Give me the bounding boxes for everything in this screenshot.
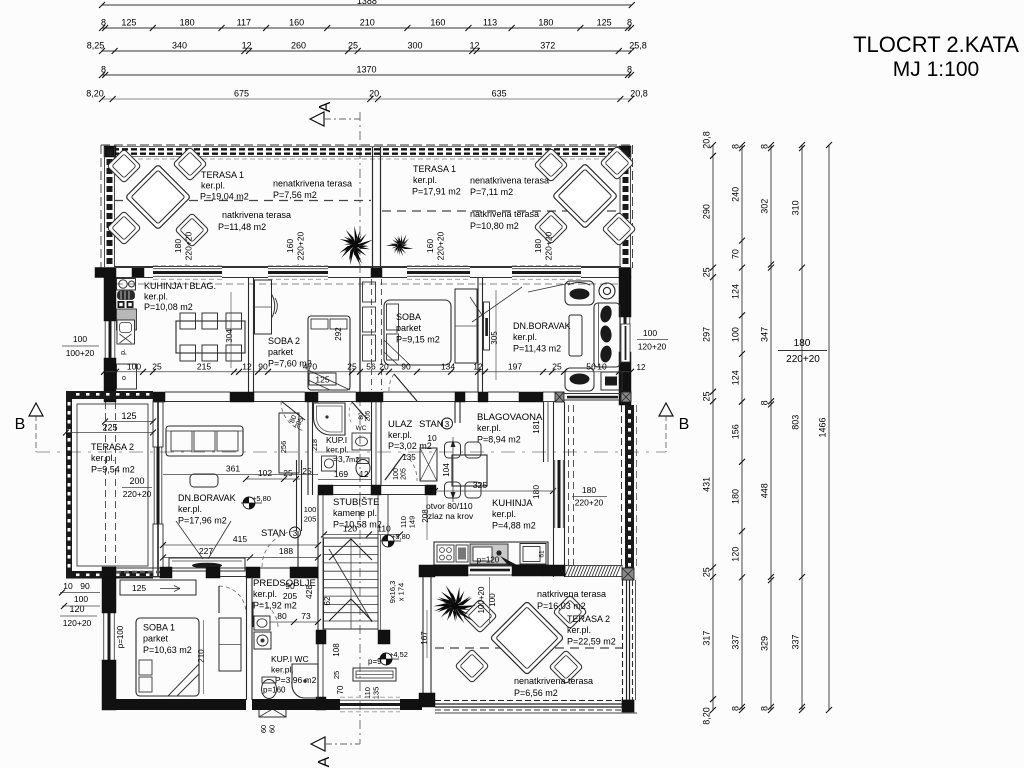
text stan3 label (261, 527, 301, 539)
svg-text:KUHINJA: KUHINJA (492, 498, 533, 509)
svg-text:TERASA 1: TERASA 1 (413, 164, 456, 174)
wall terasa2-east railing lower (623, 580, 636, 700)
svg-text:90: 90 (80, 581, 90, 591)
wardrobe soba right (455, 289, 477, 363)
svg-text:240: 240 (731, 187, 741, 202)
svg-text:167: 167 (420, 631, 429, 645)
leader dnboravak (528, 283, 570, 292)
svg-text:p=9: p=9 (368, 657, 382, 666)
svg-text:8,25: 8,25 (87, 41, 105, 51)
dim 90 205 predsoblje (283, 581, 297, 601)
svg-text:1466: 1466 (818, 417, 828, 437)
side table ring right (599, 283, 615, 299)
svg-text:nenatkrivena terasa: nenatkrivena terasa (470, 176, 549, 186)
svg-text:P=3,96 m2: P=3,96 m2 (275, 675, 317, 685)
svg-text:ker.pl.: ker.pl. (178, 504, 202, 514)
text soba2 (268, 336, 312, 369)
svg-text:ULAZ: ULAZ (388, 419, 412, 430)
svg-text:310: 310 (791, 200, 801, 215)
svg-text:431: 431 (702, 477, 712, 492)
wall west upper solid (104, 277, 116, 394)
door kup 80 205 (349, 402, 371, 424)
svg-text:B: B (679, 416, 690, 433)
svg-text:otvor 80/110: otvor 80/110 (426, 501, 473, 511)
dim 169 12 kup (302, 466, 371, 480)
dim vertical 104 blagovaona (442, 437, 456, 502)
toilet kup2 (262, 677, 277, 699)
svg-text:180: 180 (173, 239, 183, 253)
dimension line right col5 (818, 142, 833, 713)
dim rot 208 (421, 496, 430, 540)
svg-text:P=4,88 m2: P=4,88 m2 (492, 521, 536, 531)
armchair top right (565, 281, 594, 305)
leader lines sliding door (470, 287, 522, 322)
svg-text:TERASA 1: TERASA 1 (201, 170, 244, 180)
svg-text:B: B (15, 416, 26, 433)
svg-text:205: 205 (401, 468, 408, 480)
wall terrace-west corridor (419, 565, 435, 707)
door predsoblje stan3 (262, 531, 298, 567)
coffee table right (569, 315, 582, 356)
shaft cushions (363, 282, 376, 361)
svg-text:428: 428 (304, 585, 314, 599)
svg-text:210: 210 (360, 18, 375, 28)
dim rot 180 kuhinja window (531, 485, 541, 499)
svg-text:125: 125 (597, 18, 612, 28)
svg-text:A: A (317, 101, 334, 112)
svg-text:220+20: 220+20 (184, 231, 194, 260)
svg-text:205: 205 (283, 591, 297, 601)
wall predsoblje west (297, 460, 302, 531)
svg-text:415: 415 (233, 534, 247, 544)
svg-text:25: 25 (702, 391, 712, 401)
dimension line top row2 (99, 18, 634, 32)
svg-text:180: 180 (582, 485, 596, 495)
dim 361 (163, 464, 318, 475)
svg-text:181: 181 (532, 420, 541, 434)
svg-text:156: 156 (731, 424, 741, 439)
plant terasa1 right (386, 235, 414, 257)
svg-text:329: 329 (760, 636, 770, 651)
svg-text:STUBIŠTE: STUBIŠTE (333, 497, 379, 508)
washbasin kup (322, 456, 337, 471)
text natkrivena right (470, 209, 539, 231)
svg-text:p=160: p=160 (263, 686, 286, 695)
tv table stan3 (169, 558, 245, 571)
section marker A top (310, 101, 360, 126)
svg-text:1388: 1388 (357, 0, 377, 6)
svg-text:25: 25 (702, 567, 712, 577)
svg-text:P=22,59 m2: P=22,59 m2 (567, 637, 616, 647)
svg-text:8,20: 8,20 (86, 89, 104, 99)
door soba1 (219, 586, 246, 613)
kitchen lower cabinet (117, 364, 137, 389)
svg-text:205: 205 (304, 515, 317, 524)
svg-text:160: 160 (289, 18, 304, 28)
text natkrivena left (218, 210, 291, 232)
svg-text:ker.pl.: ker.pl. (492, 509, 516, 519)
dimension line top row4 (99, 65, 634, 79)
wall terrace parapet right (620, 147, 631, 267)
dim 100 100+20 west (62, 334, 99, 358)
window west kitchen (105, 321, 115, 358)
svg-text:STAN: STAN (261, 528, 286, 539)
dimension line right col2 (731, 142, 746, 713)
svg-text:P=17,91 m2: P=17,91 m2 (412, 187, 461, 197)
text kup wc (263, 654, 317, 695)
sofa right apartment (594, 303, 620, 367)
svg-text:P=3,02 m2: P=3,02 m2 (388, 441, 432, 451)
toilet kup (356, 458, 370, 477)
dim 227 188 (160, 546, 321, 561)
wall center shaft lower (372, 402, 382, 485)
table set terasa1 left (107, 147, 209, 247)
svg-text:8: 8 (101, 18, 106, 28)
svg-text:25: 25 (152, 362, 162, 372)
wall soba east divider (478, 277, 483, 392)
eave dashed outline top (101, 145, 633, 268)
svg-text:120: 120 (69, 604, 84, 614)
dim rot 210 soba1 (197, 620, 206, 694)
dim 180 220+20 door (778, 338, 827, 365)
svg-text:KUP.I WC: KUP.I WC (271, 654, 309, 664)
svg-text:337: 337 (791, 634, 801, 649)
dim 120 110 stairs (321, 524, 403, 538)
svg-text:P=1,92 m2: P=1,92 m2 (253, 601, 297, 611)
svg-text:90: 90 (401, 362, 411, 372)
window sill marker right (621, 324, 630, 362)
wall kitchen-soba2 divider (249, 277, 254, 392)
dim rot 100 205 door stan3 (304, 505, 317, 524)
svg-text:8: 8 (731, 706, 741, 711)
svg-text:A: A (316, 756, 333, 767)
svg-text:P=7,11 m2: P=7,11 m2 (470, 187, 513, 197)
svg-text:p.: p. (120, 349, 127, 355)
terrace2 split dashed (435, 647, 622, 649)
terrace2 bottom corner pier (622, 700, 634, 712)
wall south outer (102, 697, 422, 712)
svg-text:kamene pl.: kamene pl. (333, 508, 377, 518)
wall terasa2-east parapet upper (622, 405, 637, 568)
door arc soba2 closet (272, 294, 278, 318)
svg-text:124: 124 (731, 370, 741, 385)
washbasin kup2 top (254, 616, 270, 630)
svg-text:124: 124 (731, 284, 741, 299)
wall soba1 east divider (247, 577, 253, 700)
svg-text:180: 180 (180, 18, 195, 28)
sliding door panel (484, 302, 490, 350)
svg-text:56: 56 (366, 362, 376, 372)
svg-text:70: 70 (731, 249, 741, 259)
wall kup south (318, 485, 436, 495)
pier crosshatch east mid (622, 568, 634, 580)
svg-text:izlaz na krov: izlaz na krov (426, 511, 474, 521)
svg-text:p=100: p=100 (116, 625, 125, 648)
window W1 180 north wall (153, 266, 222, 280)
svg-text:100: 100 (127, 362, 141, 372)
dimension line right col4 (791, 142, 806, 713)
svg-text:3: 3 (445, 420, 450, 429)
section marker B right (659, 403, 689, 433)
svg-text:102: 102 (258, 468, 272, 478)
svg-text:20: 20 (369, 89, 379, 99)
wall blagovaona east (544, 402, 549, 462)
text nenatkrivena right (470, 176, 549, 198)
section marker B left (15, 403, 43, 433)
dining table stan3 (445, 442, 488, 498)
svg-text:300: 300 (407, 41, 422, 51)
wall hatch terrace mid (565, 566, 622, 577)
wall south of kitchen row (104, 392, 555, 402)
svg-text:P=9,54 m2: P=9,54 m2 (91, 465, 135, 475)
svg-text:o: o (122, 375, 126, 382)
svg-text:8: 8 (760, 400, 770, 405)
svg-text:180: 180 (531, 485, 541, 499)
svg-text:220+20: 220+20 (544, 231, 554, 260)
dimension line top row3 (87, 41, 647, 55)
svg-text:ker.pl.: ker.pl. (326, 445, 349, 455)
dim 80 73 labels (270, 611, 321, 625)
dim 180 220+20 kitchen window terrace (572, 485, 607, 508)
svg-text:KUHINJA I BLAG.: KUHINJA I BLAG. (144, 281, 216, 291)
terrace split dashed right (382, 210, 620, 212)
wall south of kuhinja stan3 (435, 565, 565, 576)
kitchen sink top (117, 279, 136, 291)
svg-text:8: 8 (627, 65, 632, 75)
kitchen counter stan3 (434, 542, 548, 565)
svg-text:215: 215 (197, 362, 211, 372)
svg-text:25: 25 (702, 267, 712, 277)
wall stair shaft west (316, 495, 326, 710)
svg-text:220+20: 220+20 (123, 489, 152, 499)
section line A-A vertical (359, 112, 361, 744)
leader lines tv stan3 (176, 521, 231, 559)
wardrobe soba2 (255, 280, 272, 334)
dim rot 305 (490, 290, 499, 380)
label p=100 rot (116, 625, 125, 648)
bed soba2 (308, 316, 350, 390)
entry door stan3 (385, 453, 417, 481)
dim 120 120+20 west (60, 604, 97, 628)
level marker +4.52 stairs (378, 650, 408, 665)
wall terrace divider center (371, 147, 382, 278)
dim 10 90 100 soba1 (59, 581, 100, 609)
window east 100 (620, 317, 630, 352)
kitchen sink unit (117, 320, 135, 344)
text otvor izlaz (426, 501, 474, 521)
bed soba right (384, 300, 451, 365)
svg-text:8: 8 (760, 706, 770, 711)
shower corner kup (313, 403, 345, 435)
kitchen hob squares (118, 301, 134, 308)
dim rot 181 (532, 420, 541, 434)
svg-text:+5,80: +5,80 (252, 494, 271, 503)
text nenatkrivena left (273, 179, 352, 201)
table set terasa1 right (534, 146, 636, 246)
stairs flight (324, 538, 379, 629)
dim 12 east outside (637, 363, 646, 372)
svg-text:160: 160 (430, 18, 445, 28)
svg-text:205: 205 (365, 410, 372, 421)
wall terasa2-west parapet (66, 391, 153, 579)
svg-text:natkrivena terasa: natkrivena terasa (222, 210, 291, 220)
svg-text:100+20: 100+20 (66, 348, 95, 358)
svg-text:ker.pl.: ker.pl. (413, 175, 437, 185)
text terasa2 west (91, 442, 135, 475)
svg-text:340: 340 (172, 41, 187, 51)
svg-text:100: 100 (74, 594, 88, 604)
svg-text:8: 8 (627, 18, 632, 28)
svg-text:25: 25 (332, 671, 341, 679)
svg-text:TLOCRT 2.KATA: TLOCRT 2.KATA (853, 32, 1019, 57)
svg-text:113: 113 (483, 18, 497, 28)
svg-text:372: 372 (540, 41, 555, 51)
svg-text:470: 470 (303, 362, 317, 372)
svg-text:25: 25 (302, 466, 312, 476)
svg-text:180: 180 (794, 338, 811, 349)
text kuhinja i blag (144, 281, 216, 312)
dining table stan2left (176, 313, 245, 361)
svg-text:305: 305 (490, 331, 499, 345)
vent block (259, 701, 286, 733)
terrace floor edge line (114, 266, 621, 268)
svg-text:20: 20 (379, 362, 389, 372)
svg-text:P=9,15 m2: P=9,15 m2 (396, 335, 440, 345)
svg-text:P=10,58 m2: P=10,58 m2 (333, 520, 382, 530)
svg-text:227: 227 (199, 546, 213, 556)
wall terrace parapet left (105, 147, 115, 267)
text soba1 (143, 623, 192, 656)
dimension line top total 1388 (99, 0, 635, 8)
svg-text:675: 675 (234, 89, 249, 99)
svg-text:448: 448 (760, 483, 770, 498)
svg-text:ker.pl.: ker.pl. (253, 589, 277, 599)
dim rot 100+20 100 terrace door (477, 577, 497, 624)
window terasa2 door 200 (154, 447, 162, 524)
svg-text:ker.pl.: ker.pl. (567, 625, 591, 635)
dim 415 (160, 534, 321, 548)
svg-text:120: 120 (731, 547, 741, 562)
section marker A bottom (311, 737, 360, 767)
svg-text:12: 12 (470, 41, 480, 51)
svg-text:325: 325 (473, 480, 487, 490)
text terasa2 bottom (567, 614, 616, 647)
svg-text:56: 56 (586, 362, 596, 372)
svg-text:8: 8 (760, 144, 770, 149)
wardrobe 256 dnboravak stan3 (279, 413, 299, 473)
dim 225 terasa2 (63, 423, 156, 436)
text kup stan2left (326, 435, 359, 464)
svg-text:ker.pl.: ker.pl. (388, 430, 412, 440)
svg-text:P=7,56 m2: P=7,56 m2 (273, 190, 317, 200)
dimension line right col1 (702, 131, 717, 725)
svg-text:200: 200 (129, 476, 144, 486)
svg-text:+5,80: +5,80 (391, 532, 410, 541)
kitchen counter gray (117, 309, 137, 330)
washing machine kup2 (254, 632, 271, 649)
wall center shaft upper (360, 277, 382, 392)
svg-text:100: 100 (73, 334, 87, 344)
dim rot 167 (420, 610, 429, 658)
svg-text:8,20: 8,20 (702, 707, 712, 725)
svg-text:80: 80 (277, 611, 287, 621)
level marker +5.80 boravak (241, 494, 271, 509)
wall terrace door east (564, 394, 621, 401)
table set terasa2 bottom (455, 595, 587, 684)
svg-text:73: 73 (301, 611, 311, 621)
text ulaz stan3 (388, 418, 453, 451)
svg-text:220+20: 220+20 (296, 231, 306, 260)
wall terasa2-south railing (435, 701, 637, 714)
dimension line top row5 (86, 89, 648, 103)
dim rot 160 220+20 w3 (425, 231, 446, 267)
svg-text:180: 180 (533, 239, 543, 253)
svg-text:218: 218 (312, 439, 319, 451)
svg-text:STAN: STAN (419, 419, 444, 430)
svg-text:100: 100 (393, 468, 400, 480)
svg-text:803: 803 (791, 415, 801, 430)
section line B-B horizontal (36, 415, 666, 452)
svg-text:ker.pl.: ker.pl. (201, 181, 225, 191)
svg-text:188: 188 (279, 546, 293, 556)
wall south of dnboravak stan3 (102, 567, 318, 578)
svg-text:KUP.I: KUP.I (326, 435, 347, 445)
window soba1 west 120 (104, 613, 115, 660)
svg-text:256: 256 (279, 441, 288, 454)
svg-text:10: 10 (427, 433, 437, 443)
svg-text:120+20: 120+20 (63, 618, 92, 628)
svg-text:12: 12 (637, 363, 646, 372)
svg-text:100: 100 (643, 328, 657, 338)
tv cabinet right (601, 372, 622, 390)
svg-text:DN.BORAVAK: DN.BORAVAK (178, 493, 236, 503)
door soba right (389, 374, 417, 401)
text p=9 stairs (368, 657, 382, 666)
svg-text:120: 120 (343, 524, 357, 534)
shelf soba1 (120, 580, 196, 595)
svg-text:parket: parket (268, 347, 294, 357)
svg-text:12: 12 (473, 362, 483, 372)
svg-text:12: 12 (242, 41, 252, 51)
bench below stairs (353, 668, 396, 699)
svg-text:parket: parket (396, 323, 422, 333)
coffee table stan3 (190, 474, 218, 487)
svg-text:149: 149 (408, 516, 417, 529)
title MJ 1:100 (893, 58, 979, 81)
terrace split dashed left (114, 200, 371, 202)
dim rot 110 149 (399, 516, 417, 529)
svg-text:12: 12 (242, 362, 252, 372)
window W3 160 north wall (407, 266, 470, 280)
svg-text:108: 108 (332, 643, 341, 657)
svg-text:90: 90 (285, 581, 295, 591)
svg-text:=3,7: =3,7 (333, 454, 350, 464)
svg-text:210: 210 (197, 649, 206, 663)
text predsoblje (253, 578, 316, 611)
svg-text:260: 260 (291, 41, 306, 51)
svg-text:P=11,48 m2: P=11,48 m2 (218, 222, 266, 232)
svg-text:x 174: x 174 (397, 583, 406, 601)
svg-text:8: 8 (731, 144, 741, 149)
dim rot 160 220+20 w2 (285, 231, 306, 267)
svg-text:nenatkrivena terasa: nenatkrivena terasa (273, 179, 352, 189)
stairs label 9x163 (388, 581, 406, 604)
svg-text:160: 160 (285, 239, 295, 253)
svg-text:12: 12 (360, 470, 369, 479)
svg-text:ker.pl.: ker.pl. (91, 453, 115, 463)
svg-text:62: 62 (323, 596, 332, 605)
svg-text:P=19,04 m2: P=19,04 m2 (200, 192, 249, 202)
